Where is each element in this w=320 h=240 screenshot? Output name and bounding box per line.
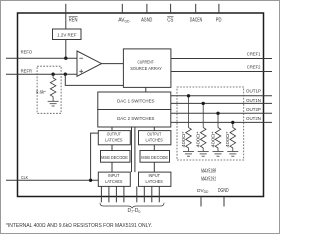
svg-text:INPUT: INPUT <box>108 173 119 179</box>
svg-text:LATCHES: LATCHES <box>146 137 163 143</box>
svg-text:LATCHES: LATCHES <box>105 179 122 185</box>
svg-text:SOURCE ARRAY: SOURCE ARRAY <box>130 66 162 72</box>
svg-text:MAX5188: MAX5188 <box>201 169 216 175</box>
svg-text:400Ω*: 400Ω* <box>196 131 201 147</box>
svg-text:DAC 2 SWITCHES: DAC 2 SWITCHES <box>117 116 154 122</box>
svg-text:400Ω*: 400Ω* <box>225 131 230 147</box>
svg-text:MAX5191: MAX5191 <box>201 177 216 183</box>
svg-text:REFR: REFR <box>21 69 33 75</box>
svg-text:OUT2N: OUT2N <box>246 116 261 122</box>
svg-text:REN: REN <box>69 17 78 23</box>
svg-text:CURRENT-: CURRENT- <box>137 60 154 66</box>
svg-text:DAC 1 SWITCHES: DAC 1 SWITCHES <box>117 99 154 105</box>
svg-text:CREF2: CREF2 <box>247 65 261 71</box>
svg-text:9.6k*: 9.6k* <box>36 89 46 94</box>
svg-text:MSB DECODE: MSB DECODE <box>101 155 128 161</box>
svg-text:DGND: DGND <box>218 188 229 194</box>
svg-text:CS: CS <box>167 17 174 23</box>
svg-text:CREF1: CREF1 <box>247 51 261 57</box>
svg-text:*INTERNAL 400Ω AND 9.6kΩ RESIS: *INTERNAL 400Ω AND 9.6kΩ RESISTORS FOR M… <box>6 223 152 229</box>
svg-text:OUT2P: OUT2P <box>246 107 261 113</box>
svg-text:LATCHES: LATCHES <box>105 137 122 143</box>
svg-text:400Ω*: 400Ω* <box>210 131 215 147</box>
svg-text:OUTPUT: OUTPUT <box>107 132 121 138</box>
svg-text:MSB DECODE: MSB DECODE <box>141 155 168 161</box>
svg-text:OUTPUT: OUTPUT <box>147 132 161 138</box>
svg-text:1.2V REF: 1.2V REF <box>57 32 76 37</box>
svg-text:LATCHES: LATCHES <box>146 179 163 185</box>
svg-text:DACEN: DACEN <box>190 17 203 23</box>
svg-text:OUT1P: OUT1P <box>246 89 261 95</box>
svg-text:AGND: AGND <box>141 17 152 23</box>
svg-text:OUT1N: OUT1N <box>246 98 261 104</box>
svg-text:400Ω*: 400Ω* <box>181 131 186 147</box>
svg-text:INPUT: INPUT <box>149 173 160 179</box>
svg-text:PD: PD <box>216 17 222 23</box>
svg-text:REFO: REFO <box>21 50 33 56</box>
svg-text:CLK: CLK <box>21 175 29 181</box>
